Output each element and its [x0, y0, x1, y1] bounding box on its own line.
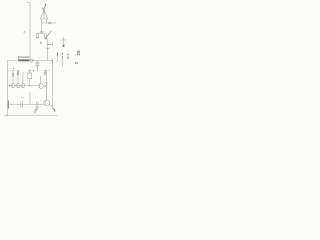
- svg-text:ε: ε: [24, 30, 26, 34]
- svg-text:25: 25: [76, 50, 81, 56]
- svg-text:6: 6: [40, 41, 42, 45]
- svg-text:26: 26: [75, 61, 79, 65]
